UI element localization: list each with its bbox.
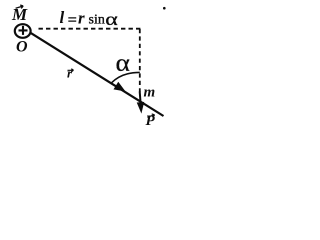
svg-text:M: M <box>11 5 28 24</box>
svg-text:r: r <box>78 9 85 28</box>
radius vector r: main line from O to end <box>31 33 164 116</box>
svg-text:α: α <box>116 49 131 77</box>
label l = r sin alpha <box>60 8 118 29</box>
svg-text:l: l <box>60 8 65 27</box>
svg-text:O: O <box>16 38 28 55</box>
svg-text:sin: sin <box>89 13 105 28</box>
svg-text:α: α <box>105 9 117 29</box>
dashed moment-arm line l (horizontal) <box>39 28 142 30</box>
moment symbol at O: circle with plus <box>15 24 31 38</box>
force vector P: shaft <box>139 92 142 104</box>
vector label r <box>67 66 74 81</box>
svg-text:m: m <box>144 85 156 101</box>
force vector P: arrowhead <box>137 102 143 112</box>
vector label P <box>146 113 156 129</box>
arrowhead of r <box>114 83 124 91</box>
vector label M <box>11 5 28 24</box>
svg-text:=: = <box>68 12 77 29</box>
speck top right <box>163 7 166 10</box>
dashed line of action of P (vertical) <box>139 29 141 92</box>
angle arc alpha <box>112 72 140 82</box>
